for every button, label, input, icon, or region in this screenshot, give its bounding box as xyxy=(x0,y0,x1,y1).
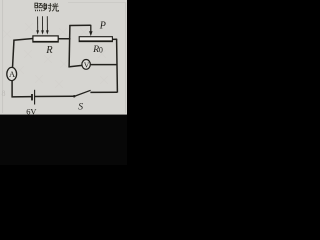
svg-text:8: 8 xyxy=(2,89,6,98)
battery 6V xyxy=(32,90,35,105)
svg-text:P: P xyxy=(99,21,106,32)
wire left vertical lower xyxy=(11,80,13,97)
wire top-left horizontal xyxy=(13,39,33,41)
light arrows onto R xyxy=(36,16,48,34)
zhao 照 xyxy=(35,3,38,8)
rheostat R0 xyxy=(79,37,112,42)
wire left vertical upper xyxy=(13,40,15,68)
voltmeter V xyxy=(82,60,90,70)
faint watermark crosses xyxy=(3,23,108,88)
label 照射光 (irradiating light) drawn strokes xyxy=(35,3,59,11)
paper background xyxy=(0,0,127,115)
ammeter A xyxy=(7,67,17,80)
black band bottom xyxy=(0,115,127,165)
short thick plate (negative) xyxy=(31,94,33,100)
wire top horizontal to slider xyxy=(69,24,90,26)
svg-text:6V: 6V xyxy=(26,107,36,116)
wire mid vertical (junction to voltmeter branch) xyxy=(68,25,71,67)
wire R0 right end to corner xyxy=(112,38,117,40)
faint page border left xyxy=(2,0,4,113)
wire battery to switch xyxy=(35,95,74,97)
switch S xyxy=(73,90,117,97)
slider P arrow xyxy=(89,25,93,36)
wire voltmeter right xyxy=(90,64,117,66)
wire voltmeter branch horizontal left xyxy=(69,65,83,67)
svg-text:0: 0 xyxy=(99,45,103,54)
wire R right to mid vertical xyxy=(58,38,70,40)
wire bottom left (corner to battery) xyxy=(12,96,32,98)
long thin plate (positive) xyxy=(34,90,36,105)
faint page border right xyxy=(125,2,127,113)
photoresistor R xyxy=(33,36,58,42)
svg-text:V: V xyxy=(84,60,90,69)
faint top-right rule xyxy=(68,2,126,4)
svg-text:S: S xyxy=(78,102,83,113)
guang 光 xyxy=(52,3,59,11)
svg-text:R: R xyxy=(45,45,53,56)
she 射 xyxy=(43,3,45,4)
wire right vertical xyxy=(116,39,119,93)
svg-text:A: A xyxy=(9,70,15,79)
